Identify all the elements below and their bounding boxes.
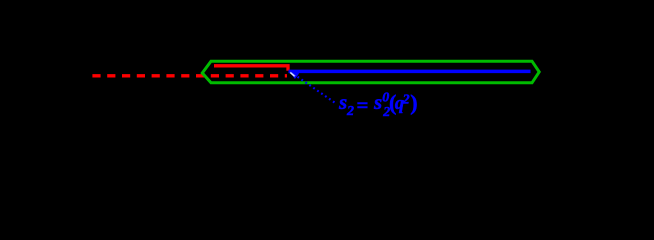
- label s2 = s2^0(q^2): [338, 90, 418, 120]
- blue dotted arrow tail: [298, 77, 337, 104]
- red dashed line (left cut): [92, 74, 287, 77]
- svg-text:2: 2: [402, 92, 410, 107]
- green hexagon (unitarity contour): [202, 61, 539, 83]
- red solid line with hook: [214, 66, 288, 71]
- svg-text:): ): [410, 90, 417, 115]
- blue solid line (cut): [289, 70, 531, 74]
- svg-text:s: s: [373, 90, 382, 114]
- svg-text:s: s: [338, 90, 347, 114]
- blue arrowhead: [288, 70, 299, 79]
- svg-text:2: 2: [346, 104, 354, 119]
- svg-text:=: =: [357, 93, 369, 117]
- arrowhead highlight streak: [290, 72, 295, 76]
